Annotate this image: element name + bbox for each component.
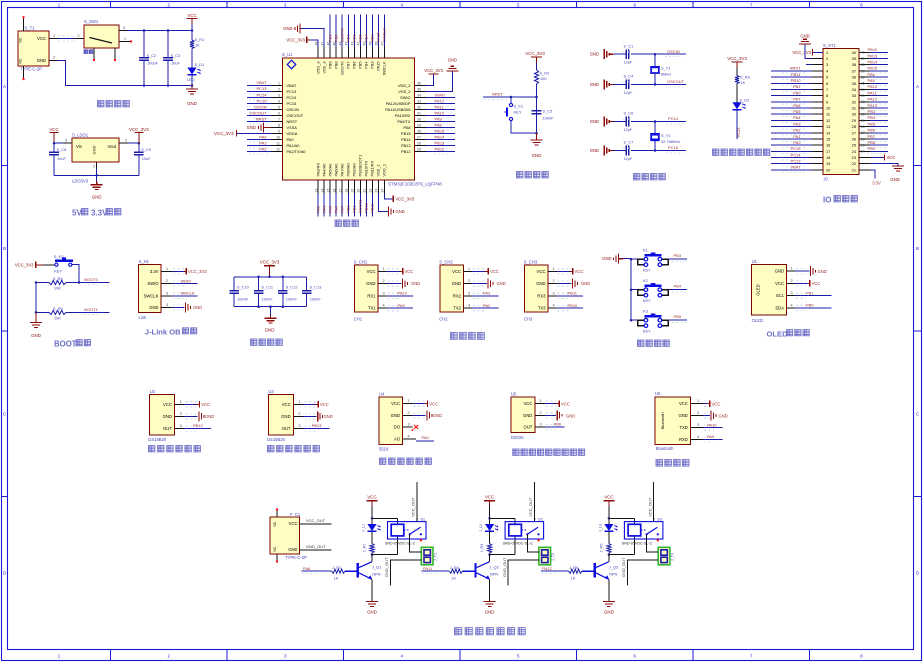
svg-text:VDD_2: VDD_2 xyxy=(398,83,411,88)
svg-text:VCC: VCC xyxy=(37,36,46,41)
svg-text:1: 1 xyxy=(826,50,828,55)
svg-text:VCC_3V3: VCC_3V3 xyxy=(792,50,811,55)
svg-text:S_D2: S_D2 xyxy=(740,97,750,102)
svg-text:PB7: PB7 xyxy=(346,62,351,69)
svg-text:VCC: VCC xyxy=(282,402,291,407)
svg-text:PC13: PC13 xyxy=(256,86,267,91)
svg-text:PB8: PB8 xyxy=(868,140,876,145)
svg-text:VCC: VCC xyxy=(367,269,376,274)
svg-text:13: 13 xyxy=(314,189,318,193)
svg-text:SRD-05VDC-SL-C: SRD-05VDC-SL-C xyxy=(622,542,653,546)
svg-text:34: 34 xyxy=(417,93,421,97)
svg-text:VCC: VCC xyxy=(679,401,688,406)
svg-text:GND: GND xyxy=(193,305,202,310)
svg-text:3: 3 xyxy=(123,26,125,30)
svg-text:PA0: PA0 xyxy=(793,140,801,145)
svg-text:100nF: 100nF xyxy=(237,297,249,302)
svg-text:PA2/TX/A0: PA2/TX/A0 xyxy=(287,149,307,154)
svg-text:BOOT0: BOOT0 xyxy=(340,28,345,42)
svg-text:PB6: PB6 xyxy=(352,62,357,69)
svg-text:30: 30 xyxy=(861,113,865,117)
svg-text:GND: GND xyxy=(532,153,542,158)
svg-text:PA4: PA4 xyxy=(793,115,801,120)
svg-text:PB3: PB3 xyxy=(370,62,375,69)
svg-text:25: 25 xyxy=(852,143,856,148)
svg-text:3.3V: 3.3V xyxy=(91,209,108,218)
svg-text:PB3: PB3 xyxy=(370,34,375,42)
svg-text:PC13: PC13 xyxy=(287,89,297,94)
svg-text:GND: GND xyxy=(818,269,827,274)
svg-text:VDD_3: VDD_3 xyxy=(315,62,320,75)
svg-text:100uF: 100uF xyxy=(147,61,159,66)
svg-text:OUT: OUT xyxy=(282,426,291,431)
svg-text:GND: GND xyxy=(149,305,158,310)
svg-text:2: 2 xyxy=(383,279,385,283)
svg-text:PA8: PA8 xyxy=(868,72,876,77)
svg-text:PC15: PC15 xyxy=(256,98,267,103)
svg-text:5V: 5V xyxy=(72,209,82,218)
svg-text:S_C4: S_C4 xyxy=(624,74,635,79)
svg-text:GND: GND xyxy=(523,413,532,418)
svg-text:VBAT: VBAT xyxy=(287,83,297,88)
svg-text:25: 25 xyxy=(861,144,865,148)
svg-text:GND: GND xyxy=(452,281,461,286)
svg-text:K3: K3 xyxy=(643,308,649,313)
svg-text:10uF: 10uF xyxy=(142,156,151,161)
svg-text:DS18B20: DS18B20 xyxy=(267,437,286,442)
svg-text:CH2: CH2 xyxy=(439,316,448,321)
svg-text:PA12/USB/DP: PA12/USB/DP xyxy=(386,101,411,106)
svg-text:VCC: VCC xyxy=(49,127,58,132)
svg-text:VCC: VCC xyxy=(490,269,499,274)
svg-text:PB9: PB9 xyxy=(868,146,876,151)
svg-text:GND: GND xyxy=(163,414,172,419)
svg-text:PB0: PB0 xyxy=(346,205,351,213)
svg-text:SWCLK: SWCLK xyxy=(382,61,387,75)
svg-text:2: 2 xyxy=(298,412,300,416)
svg-text:27: 27 xyxy=(417,136,421,140)
svg-text:4: 4 xyxy=(697,435,699,439)
svg-text:PB4: PB4 xyxy=(674,284,682,289)
svg-text:PB3: PB3 xyxy=(868,109,876,114)
svg-text:37: 37 xyxy=(861,69,865,73)
svg-text:PB0: PB0 xyxy=(793,90,801,95)
svg-text:39: 39 xyxy=(861,57,865,61)
svg-text:CH1: CH1 xyxy=(354,316,363,321)
svg-text:2: 2 xyxy=(826,56,828,61)
svg-text:GND: GND xyxy=(590,119,599,124)
svg-text:1: 1 xyxy=(383,267,385,271)
svg-text:K1: K1 xyxy=(643,247,649,252)
svg-text:PB4: PB4 xyxy=(868,115,876,120)
svg-text:NRST: NRST xyxy=(287,119,298,124)
svg-text:3: 3 xyxy=(408,423,410,427)
svg-text:PA12: PA12 xyxy=(542,566,552,571)
svg-text:26: 26 xyxy=(417,142,421,146)
svg-text:AO: AO xyxy=(394,437,401,442)
svg-text:VCC_OUT: VCC_OUT xyxy=(410,497,415,517)
svg-text:39: 39 xyxy=(852,56,856,61)
svg-text:PB1: PB1 xyxy=(352,205,357,213)
svg-text:PB1: PB1 xyxy=(806,290,814,295)
svg-text:PB13: PB13 xyxy=(401,143,411,148)
svg-text:PB9: PB9 xyxy=(327,34,332,42)
svg-text:PA6/A0: PA6/A0 xyxy=(333,163,338,177)
svg-text:37: 37 xyxy=(852,68,856,73)
svg-text:PA4/A0: PA4/A0 xyxy=(321,163,326,177)
svg-text:GND: GND xyxy=(678,413,687,418)
svg-text:OSCOUT: OSCOUT xyxy=(667,79,685,84)
svg-text:GND_OUT: GND_OUT xyxy=(621,557,626,577)
svg-text:PA9/TX: PA9/TX xyxy=(397,119,411,124)
svg-text:VCC: VCC xyxy=(537,269,546,274)
svg-text:2: 2 xyxy=(408,411,410,415)
svg-text:Link: Link xyxy=(139,315,148,320)
svg-text:GND: GND xyxy=(396,209,405,214)
svg-text:1: 1 xyxy=(697,399,699,403)
svg-text:GND: GND xyxy=(187,101,197,106)
svg-text:PA10/RX: PA10/RX xyxy=(395,113,411,118)
svg-text:1K: 1K xyxy=(451,575,456,580)
svg-text:VCC: VCC xyxy=(604,494,613,499)
svg-text:GND_OUT: GND_OUT xyxy=(306,544,326,549)
svg-text:PA9: PA9 xyxy=(398,303,406,308)
svg-text:J_T2: J_T2 xyxy=(551,553,555,561)
svg-text:3: 3 xyxy=(540,423,542,427)
svg-text:OLED: OLED xyxy=(752,318,763,323)
svg-text:PA8: PA8 xyxy=(303,566,311,571)
svg-text:PA13: PA13 xyxy=(868,103,878,108)
svg-text:VCC: VCC xyxy=(485,494,494,499)
svg-text:OSCIN: OSCIN xyxy=(254,104,267,109)
svg-text:GND: GND xyxy=(890,177,899,182)
svg-text:KEY: KEY xyxy=(643,298,651,303)
svg-text:OLED: OLED xyxy=(756,284,761,295)
svg-text:18: 18 xyxy=(826,155,830,160)
svg-text:PB5: PB5 xyxy=(868,121,876,126)
svg-text:31: 31 xyxy=(852,106,856,111)
svg-text:PA2: PA2 xyxy=(793,128,801,133)
svg-text:PA10: PA10 xyxy=(435,110,445,115)
svg-text:29: 29 xyxy=(861,119,865,123)
svg-text:S_C3: S_C3 xyxy=(171,53,181,58)
svg-text:3: 3 xyxy=(180,424,182,428)
svg-text:PB4: PB4 xyxy=(364,34,369,42)
svg-text:VSS_1: VSS_1 xyxy=(376,164,381,176)
svg-text:11: 11 xyxy=(826,112,830,117)
svg-text:S_C11: S_C11 xyxy=(261,285,273,290)
svg-text:PB6: PB6 xyxy=(868,128,876,133)
svg-text:32: 32 xyxy=(861,100,865,104)
svg-text:PA1: PA1 xyxy=(259,141,267,146)
svg-text:GND: GND xyxy=(265,328,275,333)
svg-text:PB14: PB14 xyxy=(401,137,411,142)
svg-text:PA7/A0: PA7/A0 xyxy=(340,163,345,177)
svg-text:NRST: NRST xyxy=(256,116,267,121)
svg-text:3: 3 xyxy=(65,139,67,143)
svg-text:1K: 1K xyxy=(334,575,339,580)
svg-text:31: 31 xyxy=(861,106,865,110)
svg-text:D203S: D203S xyxy=(511,435,524,440)
svg-text:S_CH2: S_CH2 xyxy=(439,259,453,264)
svg-text:23: 23 xyxy=(375,189,379,193)
svg-text:PB11: PB11 xyxy=(568,291,578,296)
svg-text:7: 7 xyxy=(278,117,280,121)
svg-text:S_R3: S_R3 xyxy=(740,75,750,80)
svg-text:B: B xyxy=(916,246,919,251)
svg-text:2: 2 xyxy=(180,412,182,416)
svg-text:S_C8: S_C8 xyxy=(57,147,67,152)
svg-text:NC: NC xyxy=(19,58,23,63)
svg-text:PB11: PB11 xyxy=(791,72,801,77)
svg-text:NC: NC xyxy=(273,521,277,526)
svg-text:J_R1: J_R1 xyxy=(363,544,367,553)
svg-text:9: 9 xyxy=(826,99,828,104)
svg-text:38: 38 xyxy=(852,62,856,67)
svg-text:J_R2: J_R2 xyxy=(332,565,341,570)
svg-text:KEY: KEY xyxy=(643,329,651,334)
svg-text:23: 23 xyxy=(852,155,856,160)
svg-text:PA3: PA3 xyxy=(793,121,801,126)
svg-text:VCC: VCC xyxy=(429,401,438,406)
svg-text:J_R3: J_R3 xyxy=(480,544,484,553)
svg-text:1K: 1K xyxy=(571,575,576,580)
svg-text:PA12: PA12 xyxy=(868,97,878,102)
svg-text:GND: GND xyxy=(31,333,41,338)
svg-text:SRD-05VDC-SL-C: SRD-05VDC-SL-C xyxy=(503,542,534,546)
svg-text:GND: GND xyxy=(281,414,290,419)
svg-text:VCC: VCC xyxy=(575,269,584,274)
svg-text:4: 4 xyxy=(383,304,385,308)
svg-text:BOOT1: BOOT1 xyxy=(358,199,363,213)
svg-text:PB0/A0: PB0/A0 xyxy=(346,162,351,176)
svg-text:PC13: PC13 xyxy=(736,127,741,138)
svg-text:S_Y2: S_Y2 xyxy=(661,133,671,138)
svg-text:S_ST1: S_ST1 xyxy=(823,43,836,48)
svg-text:VCC_OUT: VCC_OUT xyxy=(647,497,652,517)
svg-text:VCC: VCC xyxy=(561,401,570,406)
svg-text:35: 35 xyxy=(861,82,865,86)
svg-text:PC14: PC14 xyxy=(668,116,679,121)
svg-text:4: 4 xyxy=(408,435,410,439)
svg-text:S_SW1: S_SW1 xyxy=(84,19,99,24)
svg-text:27: 27 xyxy=(852,130,856,135)
svg-text:PB12: PB12 xyxy=(401,149,411,154)
svg-text:VCC: VCC xyxy=(711,401,720,406)
svg-text:PA6: PA6 xyxy=(333,205,338,213)
svg-text:10K: 10K xyxy=(54,286,61,291)
svg-text:VCC: VCC xyxy=(367,494,376,499)
svg-text:PA7: PA7 xyxy=(340,205,345,213)
svg-text:J_S2: J_S2 xyxy=(534,517,544,522)
svg-text:PC14: PC14 xyxy=(256,92,267,97)
svg-text:PB0: PB0 xyxy=(806,303,814,308)
svg-text:PA11: PA11 xyxy=(435,104,445,109)
svg-text:3.3V: 3.3V xyxy=(872,181,881,186)
svg-text:PA10: PA10 xyxy=(868,84,878,89)
svg-text:DS18B20: DS18B20 xyxy=(148,437,167,442)
svg-text:34: 34 xyxy=(861,88,865,92)
svg-text:GND: GND xyxy=(247,125,256,130)
svg-text:2: 2 xyxy=(791,279,793,283)
svg-text:12pF: 12pF xyxy=(624,60,633,65)
svg-text:35: 35 xyxy=(852,81,856,86)
svg-text:40: 40 xyxy=(861,51,865,55)
svg-text:PB8: PB8 xyxy=(333,62,338,69)
svg-text:S_CH1: S_CH1 xyxy=(354,259,368,264)
svg-text:D: D xyxy=(3,571,6,576)
svg-text:4: 4 xyxy=(166,303,168,307)
svg-text:2: 2 xyxy=(468,279,470,283)
svg-text:PA9: PA9 xyxy=(435,116,443,121)
svg-text:Vout: Vout xyxy=(108,144,117,149)
svg-text:PA4: PA4 xyxy=(321,205,326,213)
svg-text:J_T1: J_T1 xyxy=(434,553,438,561)
svg-text:PA0: PA0 xyxy=(259,134,267,139)
svg-text:TXD: TXD xyxy=(679,425,687,430)
svg-text:VCC: VCC xyxy=(289,521,298,526)
svg-text:PB1/A0: PB1/A0 xyxy=(352,162,357,176)
svg-text:PA10: PA10 xyxy=(398,291,408,296)
svg-text:GND: GND xyxy=(205,414,214,419)
svg-text:S_H1: S_H1 xyxy=(139,259,150,264)
svg-text:6: 6 xyxy=(826,81,828,86)
svg-text:S_U1: S_U1 xyxy=(282,52,293,57)
svg-text:OLED: OLED xyxy=(767,330,789,339)
svg-text:S_K2: S_K2 xyxy=(54,254,65,259)
svg-text:GND: GND xyxy=(590,82,599,87)
svg-text:PC15: PC15 xyxy=(287,101,297,106)
svg-text:RX1: RX1 xyxy=(367,293,376,298)
svg-text:PA15: PA15 xyxy=(376,62,381,71)
svg-text:GND_OUT: GND_OUT xyxy=(502,557,507,577)
svg-text:VCC: VCC xyxy=(405,269,414,274)
svg-text:J_R4: J_R4 xyxy=(450,565,460,570)
svg-text:S_C13: S_C13 xyxy=(310,285,322,290)
svg-text:S_R4: S_R4 xyxy=(53,276,64,281)
svg-text:35: 35 xyxy=(417,87,421,91)
svg-text:PC14: PC14 xyxy=(790,152,801,157)
svg-text:KEY: KEY xyxy=(54,269,62,274)
svg-text:100nF: 100nF xyxy=(543,116,555,121)
svg-text:PB8: PB8 xyxy=(333,34,338,42)
svg-text:PB10/TX: PB10/TX xyxy=(364,161,369,177)
svg-text:VCC: VCC xyxy=(187,13,196,18)
svg-text:3.3V: 3.3V xyxy=(150,269,159,274)
svg-text:29: 29 xyxy=(417,124,421,128)
svg-text:GND: GND xyxy=(590,148,599,153)
svg-text:PB5: PB5 xyxy=(358,62,363,69)
svg-text:S_C10: S_C10 xyxy=(237,285,250,290)
svg-text:J-Link OB: J-Link OB xyxy=(145,328,181,337)
svg-text:PA11/USB/DM: PA11/USB/DM xyxy=(385,107,410,112)
svg-text:B: B xyxy=(3,246,6,251)
svg-text:1: 1 xyxy=(540,399,542,403)
svg-text:PC13: PC13 xyxy=(790,159,801,164)
svg-text:30: 30 xyxy=(417,117,421,121)
svg-text:GND: GND xyxy=(283,26,292,31)
svg-text:S_C6: S_C6 xyxy=(624,111,634,116)
svg-text:SDA: SDA xyxy=(775,305,784,310)
svg-text:PB13: PB13 xyxy=(435,141,446,146)
svg-text:3: 3 xyxy=(826,62,828,67)
svg-text:VCC_3V3: VCC_3V3 xyxy=(188,269,207,274)
svg-text:J_S3: J_S3 xyxy=(653,517,663,522)
svg-text:IO: IO xyxy=(824,177,829,182)
svg-text:IO: IO xyxy=(823,196,831,205)
svg-text:VCC_3V3: VCC_3V3 xyxy=(286,37,305,42)
svg-text:3: 3 xyxy=(553,291,555,295)
svg-text:A: A xyxy=(3,84,6,89)
svg-text:PB1: PB1 xyxy=(793,84,801,89)
svg-text:1: 1 xyxy=(278,81,280,85)
svg-text:GND: GND xyxy=(566,413,575,418)
svg-text:PA15: PA15 xyxy=(376,32,381,42)
svg-text:36: 36 xyxy=(852,75,856,80)
svg-text:VCC: VCC xyxy=(201,402,210,407)
svg-text:PA8: PA8 xyxy=(435,122,443,127)
svg-text:VSS_3: VSS_3 xyxy=(321,62,326,74)
svg-text:U4: U4 xyxy=(379,391,385,396)
svg-text:PB6: PB6 xyxy=(554,422,562,427)
svg-text:7: 7 xyxy=(826,87,828,92)
svg-text:33: 33 xyxy=(852,93,856,98)
svg-text:GND: GND xyxy=(433,413,442,418)
svg-text:24: 24 xyxy=(861,150,865,154)
svg-text:10uF: 10uF xyxy=(171,61,180,66)
svg-text:VCC: VCC xyxy=(812,281,821,286)
svg-text:PA6: PA6 xyxy=(793,103,801,108)
svg-text:VCC_3V3: VCC_3V3 xyxy=(260,259,280,264)
svg-text:PB5: PB5 xyxy=(674,314,682,319)
svg-text:2: 2 xyxy=(53,56,55,60)
svg-text:BOOT0: BOOT0 xyxy=(84,277,98,282)
svg-text:S_R1: S_R1 xyxy=(195,37,205,42)
svg-text:PA7: PA7 xyxy=(793,97,801,102)
svg-text:26: 26 xyxy=(852,136,856,141)
svg-text:S_K1: S_K1 xyxy=(514,104,525,109)
svg-text:100nF: 100nF xyxy=(310,297,322,302)
svg-text:13: 13 xyxy=(826,124,830,129)
svg-text:1: 1 xyxy=(53,34,55,38)
svg-text:S_C1: S_C1 xyxy=(624,43,634,48)
svg-text:SWCLK: SWCLK xyxy=(144,293,159,298)
svg-text:6: 6 xyxy=(278,111,280,115)
svg-text:24: 24 xyxy=(381,189,385,193)
svg-text:10uF: 10uF xyxy=(57,156,66,161)
svg-text:S_Y1: S_Y1 xyxy=(661,66,671,71)
svg-text:U2: U2 xyxy=(150,389,156,394)
svg-text:31: 31 xyxy=(417,111,421,115)
svg-text:VBAT: VBAT xyxy=(256,80,267,85)
svg-text:GND: GND xyxy=(581,281,590,286)
svg-text:GND: GND xyxy=(391,413,400,418)
svg-text:VCC_3V3: VCC_3V3 xyxy=(727,56,747,61)
svg-text:14: 14 xyxy=(320,189,324,193)
svg-text:PA3: PA3 xyxy=(315,205,320,213)
svg-text:PB15: PB15 xyxy=(868,66,879,71)
svg-text:D: D xyxy=(916,571,919,576)
svg-text:5516: 5516 xyxy=(379,446,389,451)
svg-text:J_T3: J_T3 xyxy=(670,553,674,561)
svg-text:PA2: PA2 xyxy=(259,147,267,152)
svg-text:GND: GND xyxy=(367,610,377,615)
svg-text:S_C7: S_C7 xyxy=(624,140,634,145)
svg-text:PA5: PA5 xyxy=(793,109,801,114)
svg-text:3: 3 xyxy=(468,291,470,295)
svg-text:1: 1 xyxy=(298,400,300,404)
svg-text:1: 1 xyxy=(124,37,126,41)
